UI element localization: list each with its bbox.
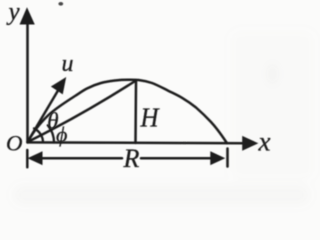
R dimension line right part [141,157,213,160]
projectile parabola [28,80,228,143]
svg-text:H: H [140,103,160,133]
chord O to apex [28,81,137,143]
x-axis arrowhead [243,137,258,150]
H vertical line [134,81,137,144]
svg-text:u: u [62,51,74,77]
phi angle arc [48,125,54,142]
theta angle arc [34,128,43,142]
svg-text:R: R [123,144,140,173]
y-axis arrowhead [20,9,34,25]
x-axis [28,141,244,144]
faint scan smudge right [268,63,278,85]
stray scan mark top [58,2,63,6]
u arrowhead [52,78,66,94]
R right tick [226,149,229,167]
svg-text:ϕ: ϕ [56,122,67,147]
svg-text:y: y [6,0,21,26]
y-axis [26,22,29,143]
R dimension line left part [40,157,122,160]
u arrow shaft [28,91,59,143]
svg-text:x: x [258,127,271,157]
R left tick [26,150,29,167]
faint scan band bottom [14,186,309,204]
svg-text:O: O [6,131,23,156]
R left arrowhead [29,152,42,164]
R right arrowhead [211,152,224,164]
faint scan band top right [230,30,315,180]
